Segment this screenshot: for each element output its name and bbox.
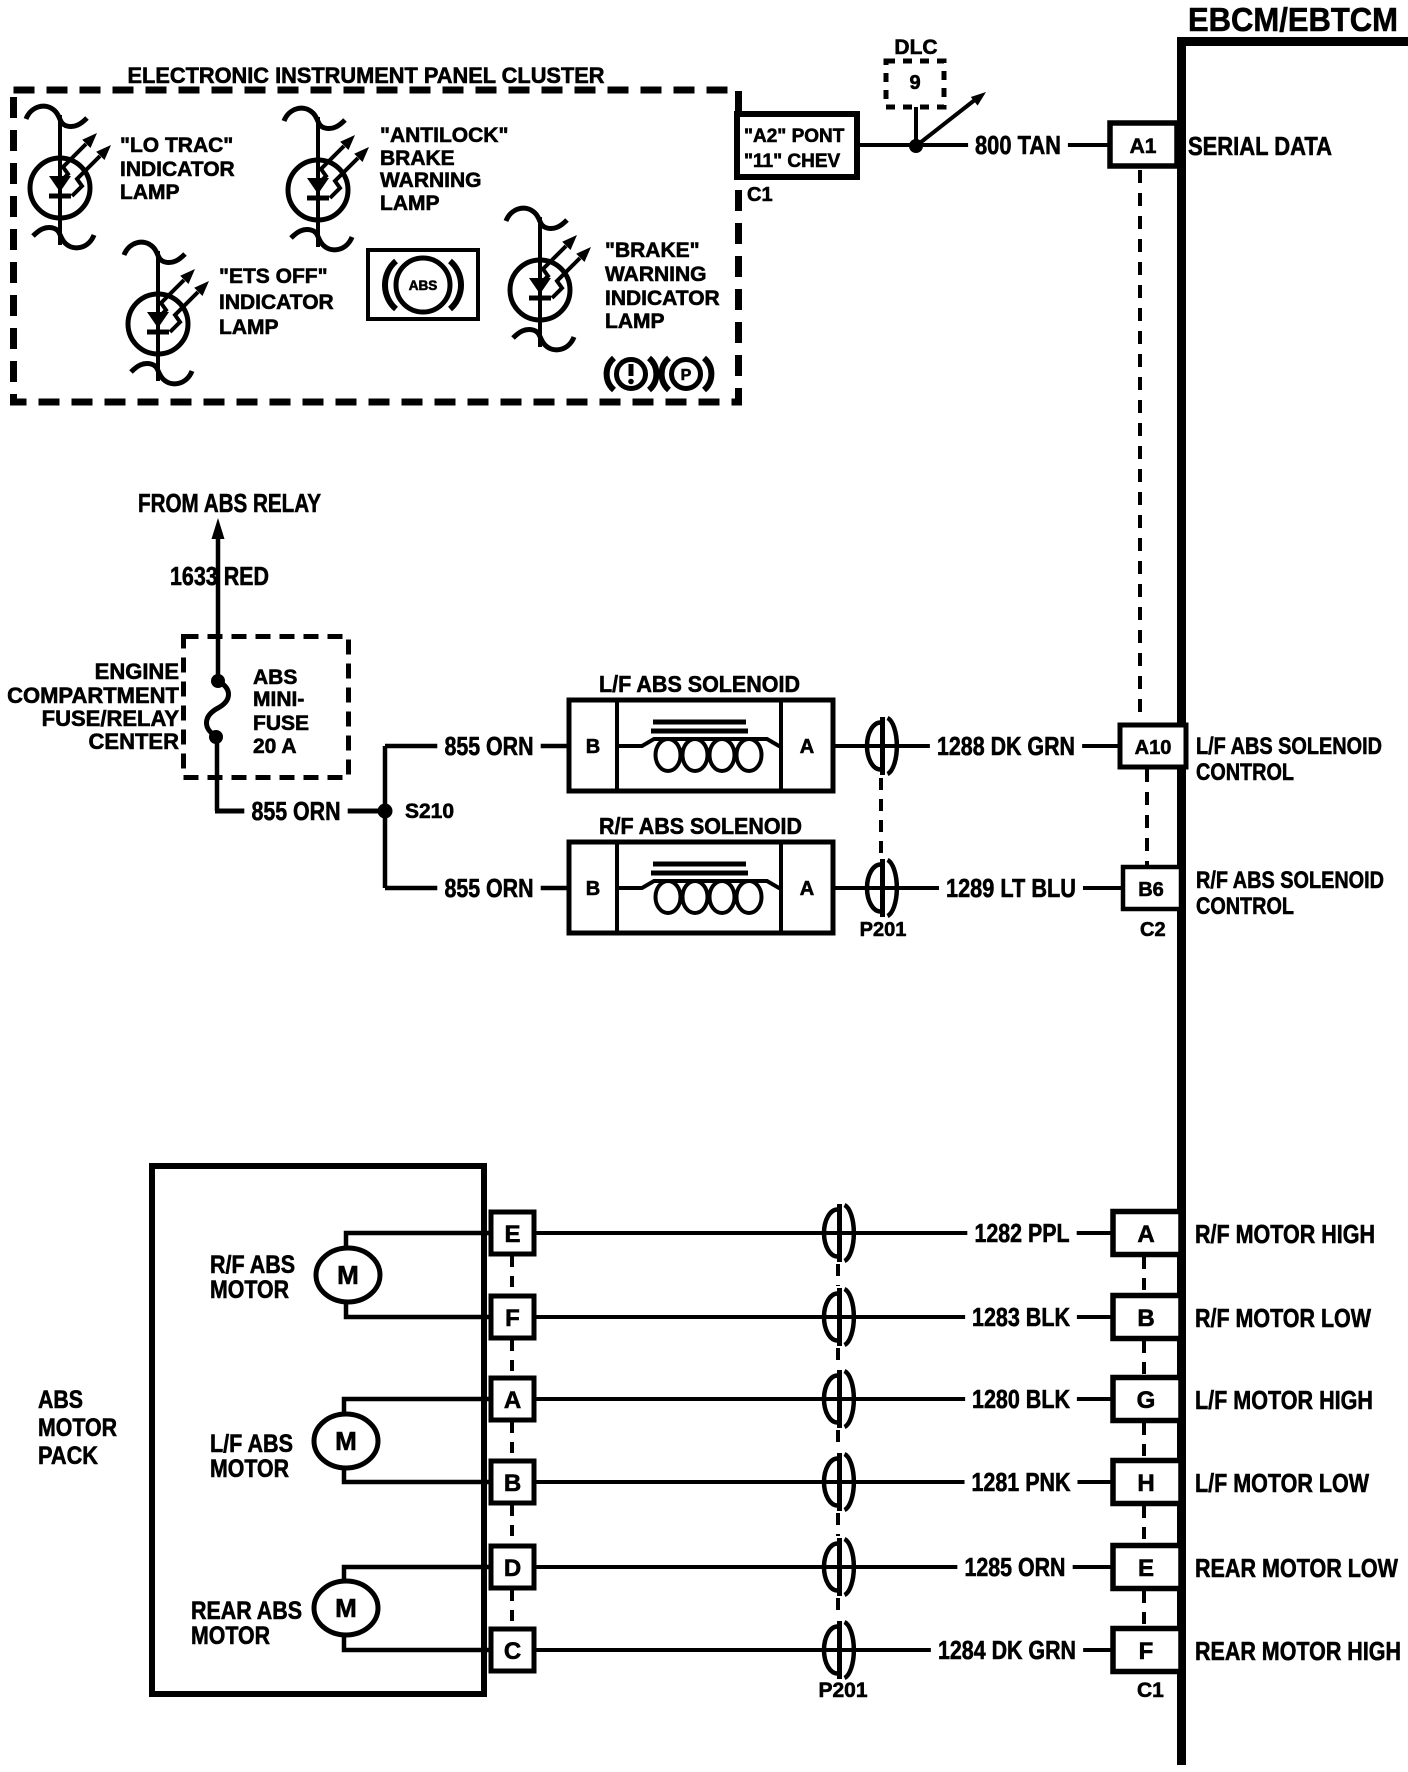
terminal A (motor pack) bbox=[491, 1378, 534, 1420]
svg-text:R/F MOTOR LOW: R/F MOTOR LOW bbox=[1195, 1303, 1371, 1333]
svg-text:855 ORN: 855 ORN bbox=[252, 796, 341, 826]
dashed link P201 column bbox=[836, 1264, 840, 1286]
connector P201 row D bbox=[824, 1538, 854, 1596]
svg-text:S210: S210 bbox=[405, 800, 454, 823]
DLC pin 9 dashed box bbox=[886, 36, 944, 107]
svg-text:MOTOR: MOTOR bbox=[210, 1276, 289, 1304]
connector P201 upper (solenoid rows) bbox=[867, 717, 897, 775]
svg-text:B: B bbox=[586, 736, 600, 758]
wire 855 ORN to L/F solenoid bbox=[385, 731, 569, 761]
svg-text:L/F MOTOR HIGH: L/F MOTOR HIGH bbox=[1195, 1385, 1373, 1415]
label L/F ABS MOTOR bbox=[210, 1430, 293, 1483]
terminal A (EBCM C1) bbox=[1113, 1212, 1181, 1255]
connector P201 row A bbox=[824, 1370, 854, 1428]
svg-text:DLC: DLC bbox=[894, 36, 937, 59]
svg-text:A: A bbox=[800, 878, 814, 900]
svg-text:P: P bbox=[681, 367, 692, 384]
lamp "LO TRAC" indicator lamp bbox=[26, 106, 111, 248]
solenoid R/F ABS SOLENOID bbox=[599, 813, 802, 839]
label ELECTRONIC INSTRUMENT PANEL CLUSTER bbox=[128, 63, 605, 88]
ABS motor pack box bbox=[152, 1166, 484, 1694]
wire 1289 LT BLU bbox=[833, 873, 1123, 903]
terminal F (motor pack) bbox=[491, 1296, 534, 1338]
svg-text:P201: P201 bbox=[860, 919, 907, 941]
dashed link P201 column bbox=[836, 1513, 840, 1536]
svg-text:"ANTILOCK": "ANTILOCK" bbox=[380, 124, 508, 147]
dashed line A10 to B6 bbox=[1145, 769, 1149, 865]
park brake icon (P) bbox=[662, 358, 712, 390]
svg-text:ABS: ABS bbox=[409, 278, 438, 293]
svg-text:REAR MOTOR LOW: REAR MOTOR LOW bbox=[1195, 1553, 1398, 1583]
connector P201 row F bbox=[824, 1288, 854, 1346]
svg-text:C2: C2 bbox=[1140, 919, 1166, 941]
svg-text:F: F bbox=[505, 1305, 520, 1332]
svg-text:MOTOR: MOTOR bbox=[191, 1622, 270, 1650]
label C2 bbox=[1140, 919, 1166, 941]
splice to DLC bbox=[909, 107, 923, 153]
terminal B6 bbox=[1123, 867, 1181, 909]
svg-text:1280 BLK: 1280 BLK bbox=[972, 1384, 1070, 1414]
svg-text:L/F ABS SOLENOID: L/F ABS SOLENOID bbox=[599, 671, 800, 697]
label P201 (motor rows) bbox=[818, 1679, 867, 1702]
label FROM ABS RELAY bbox=[138, 488, 321, 518]
terminal A10 bbox=[1120, 725, 1186, 767]
dashed link E-F (EBCM) bbox=[1142, 1591, 1146, 1626]
svg-text:ELECTRONIC INSTRUMENT PANEL CL: ELECTRONIC INSTRUMENT PANEL CLUSTER bbox=[128, 63, 605, 88]
terminal A1 bbox=[1110, 123, 1177, 166]
svg-text:E: E bbox=[1138, 1555, 1154, 1582]
svg-text:REAR ABS: REAR ABS bbox=[191, 1597, 302, 1625]
lamp "ETS OFF" indicator lamp bbox=[124, 242, 209, 384]
svg-text:P201: P201 bbox=[818, 1679, 867, 1702]
wire 1284 DK GRN bbox=[534, 1635, 1113, 1665]
svg-text:LAMP: LAMP bbox=[380, 192, 440, 215]
svg-text:"A2" PONT: "A2" PONT bbox=[744, 126, 845, 147]
terminal H (EBCM C1) bbox=[1113, 1461, 1181, 1504]
label REAR ABS MOTOR bbox=[191, 1597, 302, 1650]
label REAR MOTOR HIGH bbox=[1195, 1636, 1401, 1666]
wire 855 ORN feed to splice bbox=[215, 796, 385, 826]
dashed link P201 column bbox=[836, 1598, 840, 1619]
svg-text:H: H bbox=[1137, 1470, 1154, 1497]
connector box "A2" PONT "11" CHEV bbox=[737, 114, 857, 177]
brake warning icon (!) bbox=[607, 358, 657, 390]
wire 1283 BLK bbox=[534, 1302, 1113, 1332]
dashed link between solenoid connectors bbox=[879, 778, 883, 856]
svg-text:BRAKE: BRAKE bbox=[380, 147, 455, 170]
svg-text:MINI-: MINI- bbox=[253, 688, 304, 711]
ABS indicator icon bbox=[368, 250, 478, 319]
splice S210 bbox=[378, 800, 455, 823]
svg-text:C: C bbox=[504, 1638, 521, 1665]
instrument panel cluster dashed box bbox=[14, 90, 739, 402]
svg-text:C1: C1 bbox=[747, 184, 773, 206]
label ENGINE COMPARTMENT FUSE/RELAY CENTER bbox=[7, 659, 179, 754]
label R/F ABS MOTOR bbox=[210, 1251, 295, 1304]
wire 1282 PPL bbox=[534, 1218, 1113, 1248]
svg-text:LAMP: LAMP bbox=[120, 181, 180, 204]
svg-text:9: 9 bbox=[909, 72, 920, 94]
motor R/F ABS MOTOR bbox=[316, 1233, 491, 1317]
svg-text:INDICATOR: INDICATOR bbox=[219, 291, 334, 314]
label "BRAKE" WARNING INDICATOR LAMP bbox=[605, 239, 720, 333]
lamp "ANTILOCK" brake warning lamp bbox=[284, 108, 369, 250]
dashed link H-E (EBCM) bbox=[1142, 1506, 1146, 1543]
svg-text:FUSE: FUSE bbox=[253, 712, 309, 735]
svg-text:EBCM/EBTCM: EBCM/EBTCM bbox=[1188, 1, 1398, 38]
label R/F MOTOR LOW bbox=[1195, 1303, 1371, 1333]
wire 800 TAN bbox=[857, 130, 1110, 160]
svg-text:E: E bbox=[504, 1221, 520, 1248]
wire 1633 RED with up arrow bbox=[212, 518, 225, 676]
connector P201 row C bbox=[824, 1621, 854, 1679]
svg-text:F: F bbox=[1139, 1638, 1154, 1665]
svg-text:1283 BLK: 1283 BLK bbox=[972, 1302, 1070, 1332]
svg-text:"11" CHEV: "11" CHEV bbox=[744, 151, 840, 172]
svg-text:L/F ABS: L/F ABS bbox=[210, 1430, 293, 1458]
svg-text:COMPARTMENT: COMPARTMENT bbox=[7, 683, 179, 708]
solenoid L/F ABS SOLENOID bbox=[599, 671, 800, 697]
connector P201 row B bbox=[824, 1453, 854, 1511]
connector P201 lower (solenoid rows) bbox=[860, 859, 907, 941]
dashed link B-D (motor pack) bbox=[510, 1505, 514, 1544]
connector P201 row E bbox=[824, 1204, 854, 1262]
dashed link P201 column bbox=[836, 1430, 840, 1451]
svg-text:B6: B6 bbox=[1138, 879, 1164, 901]
svg-text:"ETS OFF": "ETS OFF" bbox=[219, 265, 328, 288]
lamp "BRAKE" warning indicator lamp bbox=[506, 208, 591, 350]
label L/F MOTOR LOW bbox=[1195, 1468, 1369, 1498]
svg-text:M: M bbox=[337, 1260, 359, 1290]
terminal G (EBCM C1) bbox=[1113, 1378, 1181, 1421]
svg-text:1281 PNK: 1281 PNK bbox=[972, 1467, 1071, 1497]
label "LO TRAC" INDICATOR LAMP bbox=[120, 134, 235, 204]
dashed link A-B (EBCM) bbox=[1142, 1257, 1146, 1293]
label C1 (EBCM connector) bbox=[1137, 1679, 1164, 1702]
svg-text:"BRAKE": "BRAKE" bbox=[605, 239, 700, 262]
svg-text:LAMP: LAMP bbox=[605, 310, 665, 333]
svg-text:A10: A10 bbox=[1135, 737, 1172, 759]
svg-text:1282 PPL: 1282 PPL bbox=[975, 1218, 1070, 1248]
svg-text:WARNING: WARNING bbox=[380, 169, 482, 192]
fuse ABS MINI-FUSE 20 A bbox=[206, 674, 228, 811]
svg-text:20 A: 20 A bbox=[253, 735, 297, 758]
wire 1281 PNK bbox=[534, 1467, 1113, 1497]
wire 1288 DK GRN bbox=[833, 731, 1120, 761]
svg-text:CONTROL: CONTROL bbox=[1196, 893, 1294, 920]
svg-text:PACK: PACK bbox=[38, 1442, 98, 1470]
dashed link E-F (motor pack) bbox=[510, 1256, 514, 1294]
label "ETS OFF" INDICATOR LAMP bbox=[219, 265, 334, 339]
svg-text:"LO TRAC": "LO TRAC" bbox=[120, 134, 233, 157]
dashed link G-H (EBCM) bbox=[1142, 1423, 1146, 1458]
svg-text:B: B bbox=[586, 878, 600, 900]
dashed link F-A (motor pack) bbox=[510, 1340, 514, 1376]
terminal D (motor pack) bbox=[491, 1546, 534, 1588]
svg-text:R/F MOTOR HIGH: R/F MOTOR HIGH bbox=[1195, 1219, 1375, 1249]
svg-text:C1: C1 bbox=[1137, 1679, 1164, 1702]
label L/F ABS SOLENOID CONTROL bbox=[1196, 733, 1382, 786]
svg-text:L/F MOTOR LOW: L/F MOTOR LOW bbox=[1195, 1468, 1369, 1498]
svg-text:R/F ABS SOLENOID: R/F ABS SOLENOID bbox=[1196, 867, 1384, 894]
svg-text:1288 DK GRN: 1288 DK GRN bbox=[937, 731, 1075, 761]
module EBCM/EBTCM outline bbox=[1182, 42, 1408, 1766]
wire branch vertical bbox=[383, 746, 388, 888]
terminal B (EBCM C1) bbox=[1113, 1296, 1181, 1339]
label L/F MOTOR HIGH bbox=[1195, 1385, 1373, 1415]
dashed link D-C (motor pack) bbox=[510, 1590, 514, 1627]
svg-text:ABS: ABS bbox=[38, 1386, 83, 1414]
label C1 (cluster connector) bbox=[747, 184, 773, 206]
dashed link B-G (EBCM) bbox=[1142, 1341, 1146, 1375]
dashed line A1 to A10 bbox=[1138, 170, 1142, 722]
svg-text:L/F ABS SOLENOID: L/F ABS SOLENOID bbox=[1196, 733, 1382, 760]
dashed link P201 column bbox=[836, 1348, 840, 1368]
svg-text:FROM ABS RELAY: FROM ABS RELAY bbox=[138, 488, 321, 518]
svg-text:855 ORN: 855 ORN bbox=[445, 873, 534, 903]
motor REAR ABS MOTOR bbox=[314, 1567, 491, 1650]
label ABS MINI-FUSE 20 A bbox=[253, 666, 309, 758]
svg-text:B: B bbox=[1137, 1305, 1154, 1332]
svg-text:CENTER: CENTER bbox=[89, 729, 180, 754]
arrow to DLC pin bbox=[916, 92, 986, 146]
svg-text:LAMP: LAMP bbox=[219, 316, 279, 339]
svg-text:A: A bbox=[1137, 1221, 1154, 1248]
svg-text:INDICATOR: INDICATOR bbox=[120, 158, 235, 181]
wire 855 ORN to R/F solenoid bbox=[385, 873, 569, 903]
svg-text:ABS: ABS bbox=[253, 666, 297, 689]
label R/F MOTOR HIGH bbox=[1195, 1219, 1375, 1249]
terminal E (motor pack) bbox=[491, 1212, 534, 1254]
wire 1285 ORN bbox=[534, 1552, 1113, 1582]
svg-text:A: A bbox=[800, 736, 814, 758]
svg-text:WARNING: WARNING bbox=[605, 263, 707, 286]
engine compartment fuse/relay center dashed box bbox=[184, 637, 349, 778]
label R/F ABS SOLENOID CONTROL bbox=[1196, 867, 1384, 920]
label SERIAL DATA bbox=[1188, 131, 1332, 161]
svg-text:1285 ORN: 1285 ORN bbox=[965, 1552, 1066, 1582]
svg-text:1284 DK GRN: 1284 DK GRN bbox=[938, 1635, 1076, 1665]
svg-text:R/F ABS: R/F ABS bbox=[210, 1251, 295, 1279]
label ABS MOTOR PACK bbox=[38, 1386, 117, 1470]
label EBCM/EBTCM bbox=[1188, 1, 1398, 38]
svg-text:1633 RED: 1633 RED bbox=[170, 561, 269, 591]
svg-text:D: D bbox=[504, 1555, 521, 1582]
svg-text:REAR MOTOR HIGH: REAR MOTOR HIGH bbox=[1195, 1636, 1401, 1666]
svg-text:SERIAL DATA: SERIAL DATA bbox=[1188, 131, 1332, 161]
terminal E (EBCM C1) bbox=[1113, 1546, 1181, 1589]
dashed link A-B (motor pack) bbox=[510, 1422, 514, 1459]
wire 1280 BLK bbox=[534, 1384, 1113, 1414]
svg-text:FUSE/RELAY: FUSE/RELAY bbox=[42, 706, 180, 731]
terminal B (motor pack) bbox=[491, 1461, 534, 1503]
svg-text:800 TAN: 800 TAN bbox=[975, 130, 1061, 160]
svg-text:MOTOR: MOTOR bbox=[38, 1414, 117, 1442]
label REAR MOTOR LOW bbox=[1195, 1553, 1398, 1583]
svg-text:B: B bbox=[504, 1470, 521, 1497]
terminal F (EBCM C1) bbox=[1113, 1629, 1181, 1672]
svg-text:G: G bbox=[1137, 1387, 1156, 1414]
svg-text:855 ORN: 855 ORN bbox=[445, 731, 534, 761]
svg-text:A1: A1 bbox=[1130, 135, 1157, 158]
svg-text:A: A bbox=[504, 1387, 521, 1414]
svg-text:MOTOR: MOTOR bbox=[210, 1455, 289, 1483]
label 1633 RED bbox=[170, 561, 269, 591]
svg-text:ENGINE: ENGINE bbox=[95, 659, 179, 684]
label "ANTILOCK" BRAKE WARNING LAMP bbox=[380, 124, 508, 215]
svg-text:R/F ABS SOLENOID: R/F ABS SOLENOID bbox=[599, 813, 802, 839]
svg-text:M: M bbox=[335, 1426, 357, 1456]
terminal C (motor pack) bbox=[491, 1629, 534, 1671]
svg-text:1289 LT BLU: 1289 LT BLU bbox=[946, 873, 1076, 903]
motor L/F ABS MOTOR bbox=[314, 1399, 491, 1482]
svg-text:CONTROL: CONTROL bbox=[1196, 759, 1294, 786]
svg-text:INDICATOR: INDICATOR bbox=[605, 287, 720, 310]
svg-text:M: M bbox=[335, 1593, 357, 1623]
